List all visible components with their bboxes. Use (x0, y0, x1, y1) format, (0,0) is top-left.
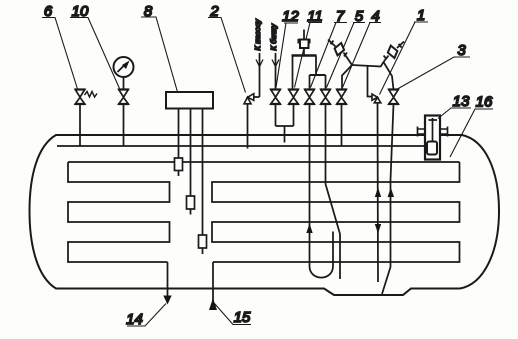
leader 14 (127, 304, 166, 327)
wire coupling to valve 4 (342, 65, 352, 90)
manifold box 8 (166, 92, 213, 109)
tank return line (275, 53, 277, 90)
left hose coupling (328, 40, 352, 66)
sub-manifold drop to valve 7 (309, 75, 311, 90)
pipe 15 (coil inlet) (212, 262, 214, 309)
leader 1 (380, 22, 429, 95)
pipe 14 (coil outlet) (167, 262, 169, 303)
leader 16 (450, 109, 493, 157)
right hose coupling (384, 42, 405, 63)
safety valve 6 (75, 90, 86, 105)
level device 13 (418, 116, 448, 160)
up arrow on pipe 3 (388, 188, 394, 198)
filling stub into tank (284, 126, 286, 143)
leader 8 (141, 17, 178, 92)
pipe from valve 6 (79, 104, 81, 146)
suction pipe from valve 3 to sump (382, 104, 394, 294)
sub-manifold bar (310, 74, 326, 76)
tank shell (30, 135, 500, 295)
up arrow on pipe 1 (375, 188, 381, 198)
svg-text:К насосу: К насосу (253, 18, 262, 50)
wire valve2 to pump line (254, 96, 260, 98)
valve 3 (388, 90, 399, 105)
leader 3 (397, 57, 471, 90)
pipe from valve 4 to header (341, 104, 343, 146)
valve 4 (336, 90, 347, 105)
spray pipe 2 from box 8 (190, 109, 192, 197)
spring of valve 6 (85, 92, 98, 98)
sub-manifold drop to valve 5 (325, 75, 327, 90)
nozzle 2 (187, 196, 195, 209)
leader 2 (208, 18, 246, 93)
pipe from valve 5 to tank bottom (326, 104, 341, 279)
angle valve 2 (244, 94, 254, 104)
coil top row (68, 161, 460, 163)
pipe from valve 10 (123, 104, 125, 146)
arrow pipe 14 (163, 296, 171, 305)
vapor header pipe (57, 145, 425, 147)
gauge stem (123, 77, 125, 90)
spray pipe 1 from box 8 (178, 109, 180, 159)
leader 13 (438, 108, 471, 119)
leader 15 (215, 304, 252, 325)
manifold bar (292, 54, 317, 56)
manifold drop to valve 11 (292, 56, 294, 90)
valve 10 (118, 90, 129, 105)
suction pipe from valve 1 (377, 103, 380, 282)
bus pipe between couplings (352, 65, 381, 67)
arrow pipe 15 (209, 298, 217, 310)
breather device on manifold (303, 30, 305, 40)
nozzle 1 (175, 158, 183, 171)
leader 10 (70, 18, 120, 89)
fill pipe from valve 7 with U-turn (310, 104, 334, 278)
svg-text:16: 16 (476, 94, 493, 111)
nozzle 3 (199, 235, 207, 248)
arrow pump line (256, 60, 263, 67)
gauge needle (118, 65, 126, 73)
svg-text:15: 15 (234, 309, 251, 326)
spray pipe 3 from box 8 (202, 109, 204, 236)
heating coil right serpentine (212, 162, 460, 262)
valve 12 (270, 90, 281, 105)
valve 5 (320, 90, 331, 105)
leader 11 (295, 23, 323, 88)
connector under valves 12 and 11 (276, 104, 294, 126)
leader 12 (276, 23, 298, 88)
leader 5 (327, 23, 366, 88)
wire coupling to valve 3 (384, 62, 394, 90)
arrow tank return line (272, 60, 279, 67)
angle valve 1 (372, 94, 381, 103)
valve 7 (304, 90, 315, 105)
pressure gauge 10 (114, 57, 134, 77)
heating coil left serpentine (68, 162, 170, 262)
wire coupling to bus (381, 62, 384, 67)
leader 6 (42, 18, 78, 90)
leader 7 (311, 23, 348, 88)
down arrow on pipe 1 (375, 224, 381, 234)
drop from bus to angle valve 1 (368, 66, 373, 97)
leader 4 (343, 23, 382, 88)
manifold right drop (315, 56, 317, 76)
svg-text:К бачку: К бачку (269, 23, 278, 51)
valve 11 (288, 90, 299, 105)
pipe from valve 2 into tank (247, 104, 249, 149)
up arrow on pipe 7 (306, 224, 312, 234)
pump line (259, 53, 261, 97)
